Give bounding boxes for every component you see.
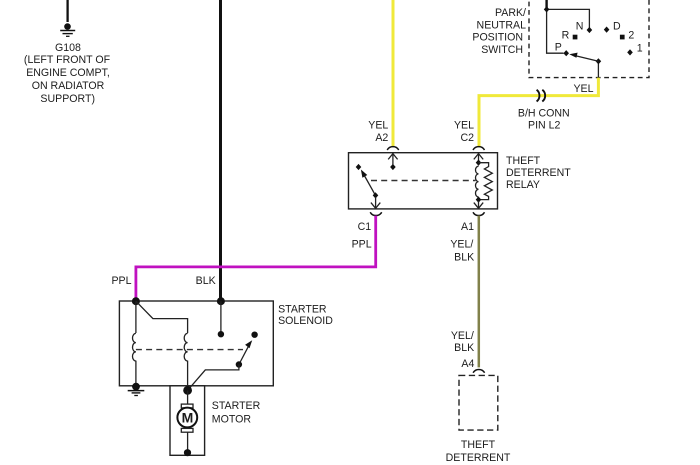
svg-text:A2: A2 [375,132,388,144]
svg-text:(LEFT FRONT OF: (LEFT FRONT OF [24,54,111,66]
svg-text:ENGINE COMPT,: ENGINE COMPT, [26,67,110,79]
wire YEL to relay A2 [392,0,395,147]
svg-text:1: 1 [637,43,643,55]
node at switch feed [544,6,550,12]
solenoid junction node PPL [132,297,140,305]
svg-text:MOTOR: MOTOR [212,414,252,426]
label THEFT DETERRENT RELAY [506,155,571,191]
svg-text:PIN L2: PIN L2 [528,119,560,131]
motor M1 [177,408,197,428]
starter solenoid box [119,301,273,386]
svg-text:A4: A4 [461,358,474,370]
svg-text:G108: G108 [55,42,81,54]
starter motor box [170,386,205,456]
svg-text:BLK: BLK [454,342,474,354]
svg-text:NEUTRAL: NEUTRAL [477,19,527,31]
svg-text:YEL: YEL [573,83,593,95]
relay coil top node [476,160,482,166]
svg-text:YEL/: YEL/ [450,239,473,251]
contact D [604,27,610,33]
relay pin C2 arrow and lead [474,153,483,160]
switch internal wiring [547,9,599,77]
solenoid left winding to ground [135,361,137,387]
contact N [587,27,593,33]
svg-text:DETERRENT: DETERRENT [506,167,571,179]
contact P [563,50,569,56]
solenoid mechanical link (dashed) [136,349,243,351]
svg-text:THEFT: THEFT [461,439,496,451]
solenoid junction node BLK [217,297,225,305]
solenoid contact node BLK [218,331,224,337]
wire BLK feed to G108 ground [66,0,68,22]
park/neutral position switch dashed box [529,0,649,78]
motor junction node [183,386,192,395]
solenoid ground node [132,383,140,391]
svg-text:DETERRENT: DETERRENT [446,452,511,464]
svg-text:BLK: BLK [196,275,216,287]
svg-text:B/H CONN: B/H CONN [518,107,570,119]
connector cup C2 [473,147,485,150]
svg-text:SWITCH: SWITCH [481,44,523,56]
svg-text:C1: C1 [358,221,372,233]
contact 2 [620,35,625,40]
motor feed wire [187,390,189,404]
svg-text:YEL: YEL [454,120,474,132]
contact R [573,35,578,40]
solenoid winding 2 [184,333,187,361]
solenoid internal wiring left winding feed [135,301,137,333]
relay mechanical link (dashed) [371,180,476,182]
svg-text:A1: A1 [461,221,474,233]
solenoid feed to right winding [136,301,188,333]
relay coil winding [476,166,479,197]
relay movable arm [364,174,376,195]
svg-text:ON RADIATOR: ON RADIATOR [32,80,105,92]
svg-text:PARK/: PARK/ [495,7,526,19]
svg-text:YEL/: YEL/ [451,330,474,342]
svg-text:POSITION: POSITION [472,32,523,44]
motor ground lead [187,432,189,453]
connector cup C1 [370,212,382,215]
connector cup A1 [473,212,485,215]
svg-text:SOLENOID: SOLENOID [278,315,333,327]
connector cup A2 [387,147,399,150]
svg-text:M: M [182,410,194,426]
solenoid right winding to motor junction [187,361,189,391]
wire BLK main vertical [219,0,222,301]
solenoid BLK contact lead [220,301,222,331]
relay coil bottom node [476,197,482,203]
label G108 location [24,42,111,105]
connector cup A4 [473,369,485,372]
solenoid arm pivot node [236,361,242,367]
relay contact node A2 [390,164,396,170]
relay arm pivot node [373,192,379,198]
relay pin C1 lead and arrow [371,197,380,208]
svg-text:PPL: PPL [352,238,372,250]
svg-text:SUPPORT): SUPPORT) [40,93,95,105]
motor bottom node [184,449,191,456]
svg-text:STARTER: STARTER [212,400,261,412]
switch arm pivot [596,58,602,64]
svg-text:BLK: BLK [454,251,474,263]
svg-text:D: D [613,20,621,32]
theft deterrent module dashed box [459,375,498,430]
wire YEL from switch to C2 [479,78,598,147]
motor brush top [181,404,193,408]
svg-text:N: N [576,20,584,32]
wire BLK feed into park/neutral switch [545,0,547,10]
svg-text:R: R [562,29,570,41]
switch position letters [555,20,643,54]
svg-text:P: P [555,41,562,53]
svg-text:PPL: PPL [111,275,131,287]
svg-text:2: 2 [628,29,634,41]
contact 1 [627,49,633,55]
switch arm with arrowhead [573,55,598,61]
theft deterrent relay box [349,153,498,209]
svg-text:STARTER: STARTER [278,303,327,315]
ground below solenoid [128,391,145,396]
relay fixed contact (rest) [356,164,362,170]
solenoid switch arm [239,345,249,365]
svg-text:YEL: YEL [368,120,388,132]
motor brush bottom [181,428,193,432]
wire YEL/BLK from relay A1 to module [478,216,481,368]
svg-text:C2: C2 [460,132,474,144]
connector B/H CONN PIN L2 [537,90,546,102]
solenoid winding 1 [132,333,135,361]
solenoid arm to motor junction [188,365,239,391]
svg-text:RELAY: RELAY [506,179,540,191]
relay pin A2 arrow and lead [388,153,397,164]
svg-text:THEFT: THEFT [506,155,541,167]
relay pin A1 lead and arrow [474,201,483,208]
relay coil parallel resistor [479,163,493,200]
label PARK/NEUTRAL POSITION SWITCH [472,7,526,56]
solenoid fixed contact node [251,332,257,338]
wire PPL from relay C1 to solenoid [136,216,376,301]
ground G108 [60,23,75,36]
